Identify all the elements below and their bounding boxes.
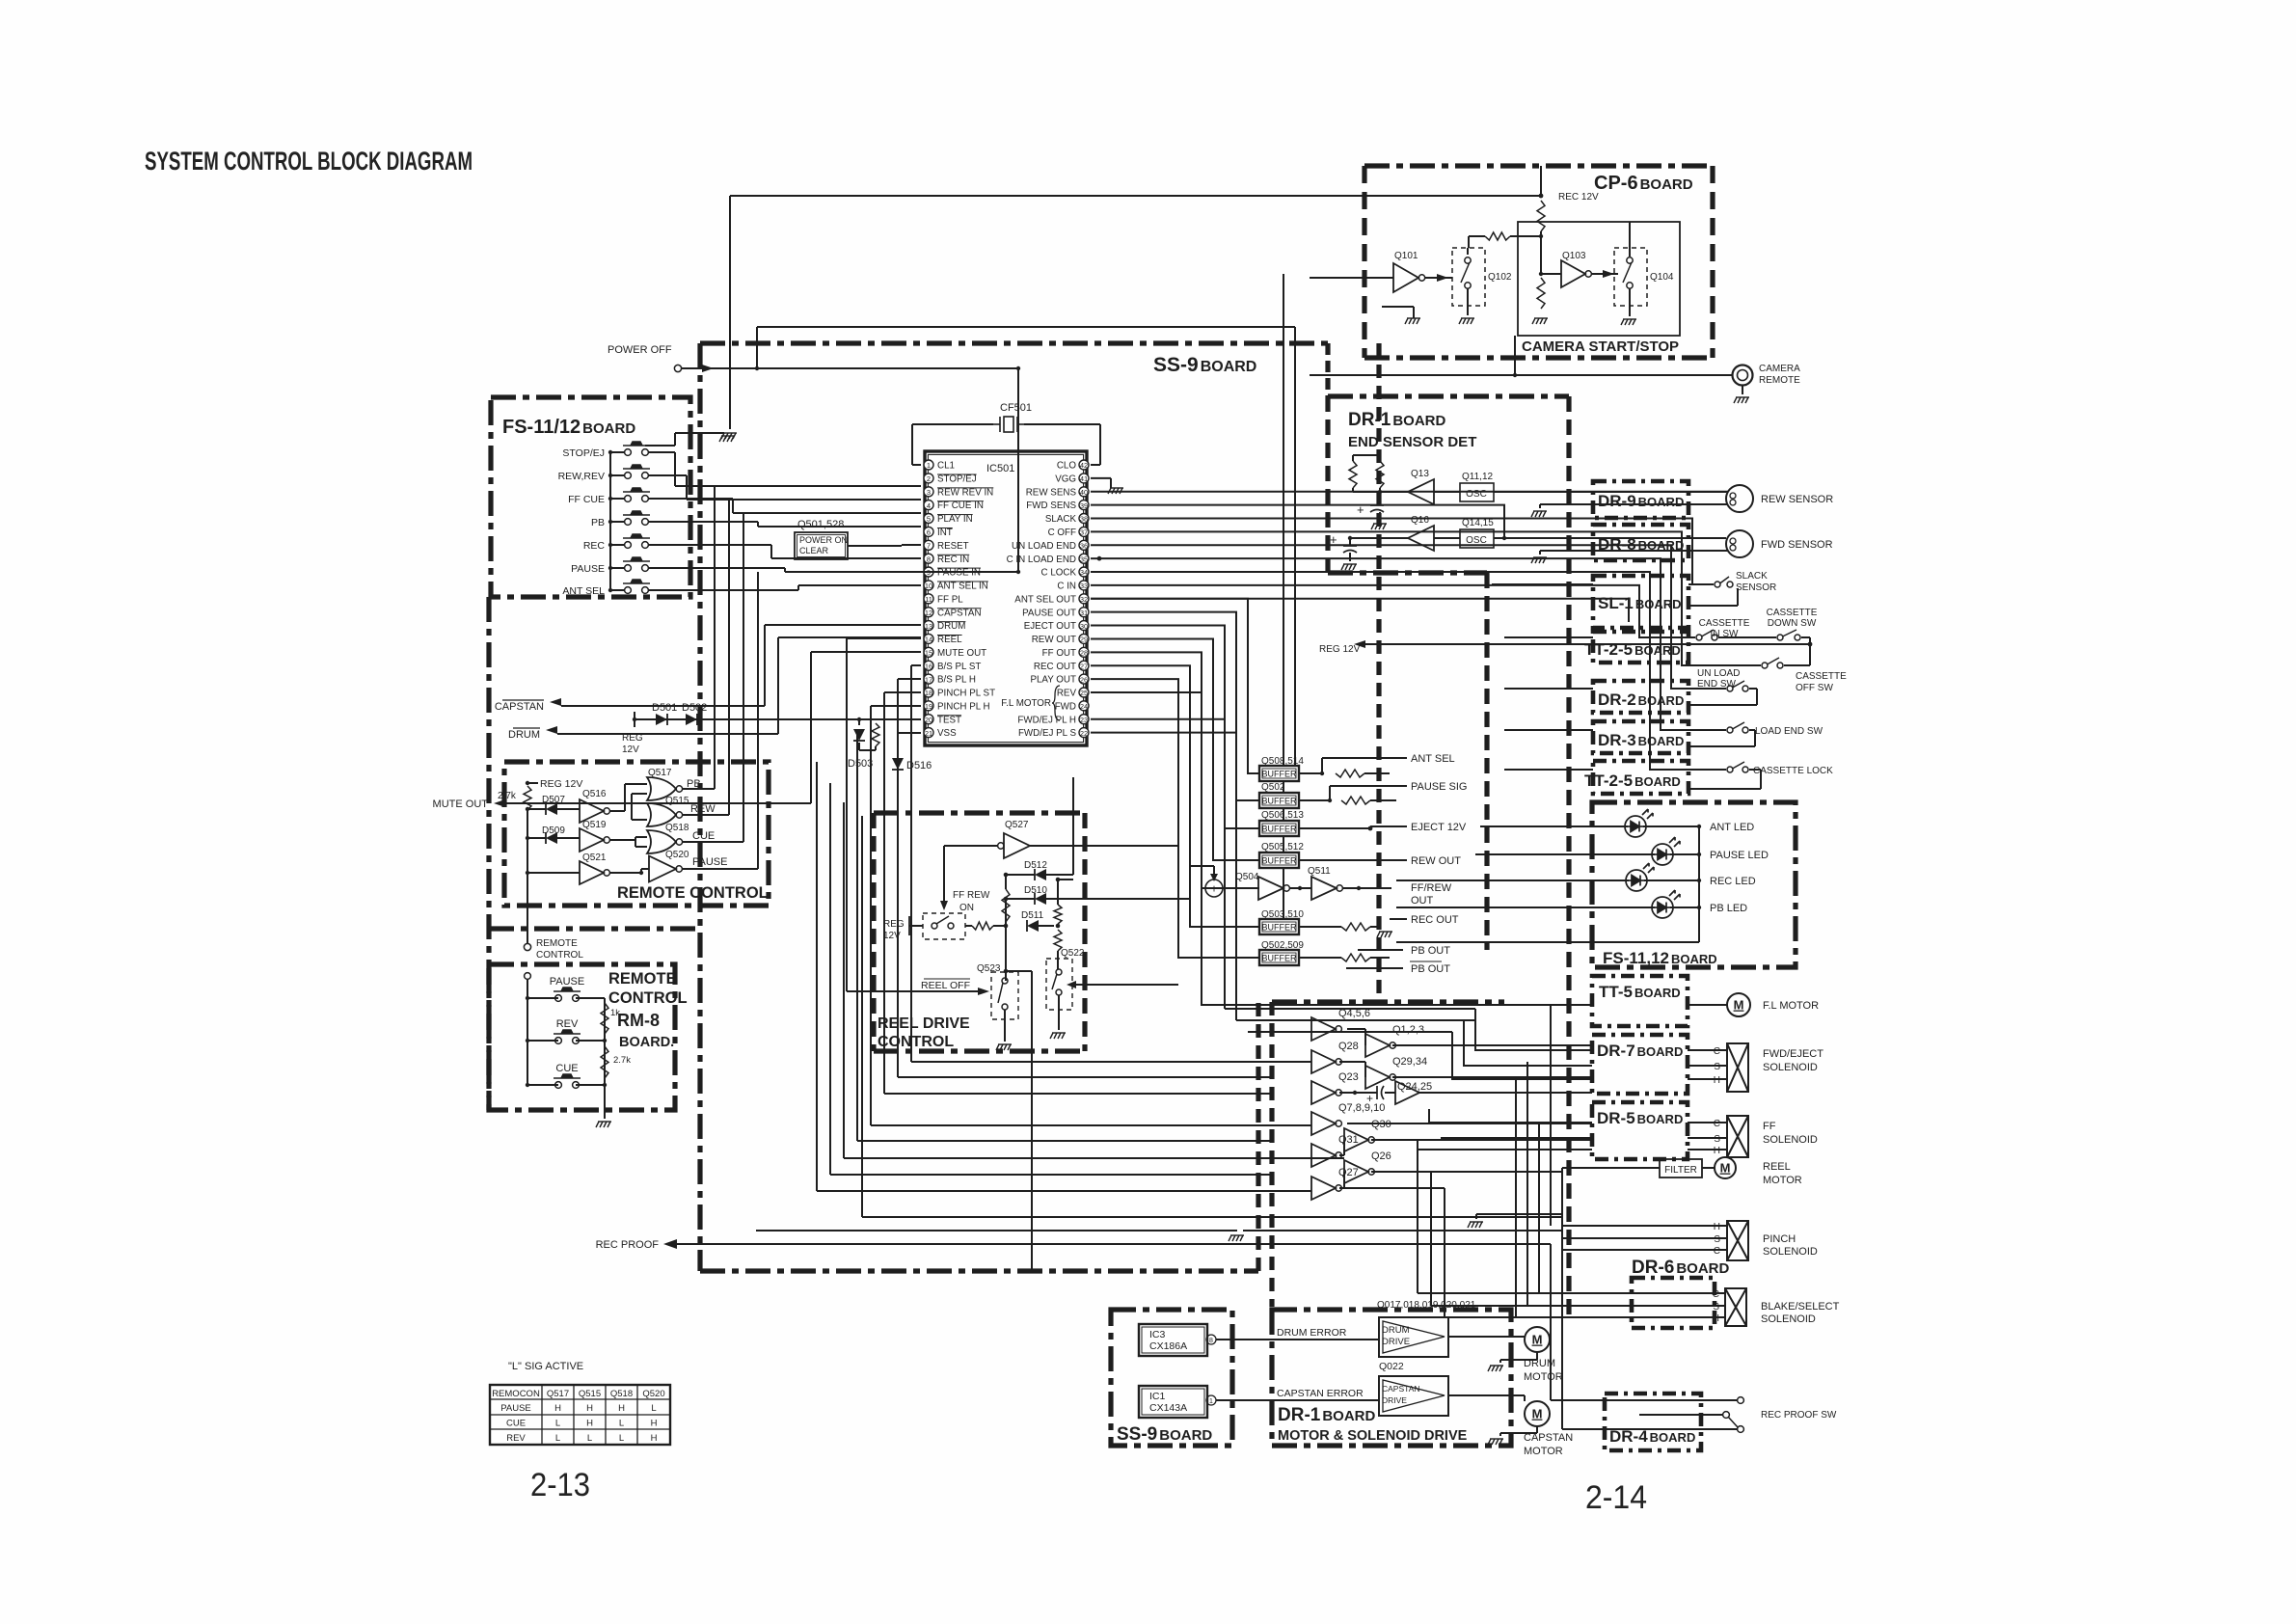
pushbutton ANT SEL [623, 580, 650, 593]
wire remote connector [527, 873, 528, 943]
wire blake riser H [1444, 1188, 1445, 1317]
svg-text:Q28: Q28 [1338, 1041, 1359, 1052]
photo sensor FWD [1726, 530, 1753, 557]
DR-8 board outline [1593, 525, 1688, 560]
wire [1688, 583, 1714, 585]
wire FF C [1429, 1122, 1592, 1123]
svg-text:Q13: Q13 [1411, 469, 1429, 479]
svg-text:PAUSE LED: PAUSE LED [1710, 850, 1769, 861]
svg-text:14: 14 [925, 636, 932, 644]
wire [1504, 664, 1593, 666]
svg-text:REC: REC [583, 540, 606, 552]
svg-text:Q022: Q022 [1379, 1361, 1404, 1372]
wire [1536, 1426, 1538, 1433]
LED PAUSE LED [1652, 837, 1680, 865]
svg-text:SYSTEM CONTROL BLOCK DIAGRAM: SYSTEM CONTROL BLOCK DIAGRAM [145, 147, 473, 176]
wire pin31 riser to buffer [1091, 612, 1259, 800]
SS-9 bottom border [700, 1268, 1258, 1273]
svg-text:PAUSE SIG: PAUSE SIG [1411, 781, 1467, 793]
inverter Q520 [649, 856, 676, 882]
svg-text:REW REV IN: REW REV IN [937, 487, 993, 498]
svg-text:PAUSE OUT: PAUSE OUT [1022, 608, 1076, 618]
junction [1016, 366, 1020, 370]
wire load end return [1754, 730, 1756, 746]
svg-text:Q103: Q103 [1562, 251, 1586, 261]
wire drum drive out [1448, 1336, 1525, 1338]
svg-text:ANT SEL: ANT SEL [562, 585, 605, 597]
svg-text:DRUM: DRUM [937, 621, 965, 632]
wire [1551, 1004, 1592, 1006]
wire button out [649, 498, 733, 500]
CAPSTAN DRIVE box [1379, 1376, 1448, 1416]
junction [526, 996, 529, 1000]
solenoid BLAKE/SELECT [1725, 1288, 1746, 1326]
junction [1378, 490, 1382, 494]
diode D516 [892, 758, 904, 770]
wire to PAUSE IN [921, 571, 1018, 573]
diode D511 [1027, 920, 1039, 932]
svg-text:REMOTE: REMOTE [536, 938, 578, 949]
svg-text:26: 26 [1080, 675, 1088, 684]
wire [1688, 769, 1726, 771]
wire FF H [1418, 1149, 1592, 1150]
svg-text:SOLENOID: SOLENOID [1763, 1246, 1818, 1258]
svg-text:H: H [651, 1419, 658, 1429]
wire bus 1235 [817, 1190, 1311, 1192]
wire [1539, 504, 1541, 508]
svg-text:REC IN: REC IN [937, 555, 969, 565]
driver Q23 [1311, 1081, 1336, 1104]
wire pin30 riser to buffer [1091, 626, 1259, 828]
wire to pin15 [811, 651, 921, 653]
wire FWD to FL motor [1091, 692, 1592, 1005]
terminal [948, 923, 954, 929]
svg-text:2.7k: 2.7k [498, 791, 517, 801]
svg-text:CAPSTAN: CAPSTAN [937, 608, 982, 618]
svg-text:REG: REG [622, 733, 643, 744]
svg-text:VSS: VSS [937, 728, 957, 739]
IC501 pin 17 [924, 674, 933, 684]
wire [1370, 957, 1390, 959]
wire [1347, 1028, 1365, 1030]
CP-6 bottom border [1364, 355, 1713, 360]
wire to fwd/eject C [1475, 1009, 1592, 1050]
svg-text:D502: D502 [682, 702, 707, 714]
DR-1 bottom board outline [1272, 1310, 1511, 1446]
wire [1370, 926, 1379, 928]
svg-text:IC501: IC501 [986, 463, 1014, 474]
wire [1469, 235, 1485, 237]
IC501 pin 36 [1079, 540, 1089, 550]
svg-text:REC PROOF: REC PROOF [596, 1239, 660, 1251]
wire to rec proof sw top [1551, 1399, 1737, 1401]
table column line [605, 1385, 607, 1445]
svg-text:1: 1 [1209, 1398, 1213, 1405]
wire [1379, 455, 1381, 461]
driver Q28 [1311, 1050, 1336, 1073]
wire [1364, 772, 1390, 774]
wire [1540, 231, 1542, 274]
wire [1369, 826, 1371, 828]
wire [1385, 1092, 1395, 1094]
terminal [1056, 969, 1062, 975]
wire [1524, 1337, 1526, 1340]
wire [609, 872, 641, 874]
ground driver area [1468, 1222, 1483, 1228]
wire camera remote [1310, 374, 1732, 376]
DRUM DRIVE box [1379, 1317, 1448, 1357]
junction [1004, 873, 1009, 878]
svg-text:DRIVE: DRIVE [1382, 1337, 1410, 1347]
wire [909, 925, 923, 927]
wire [1294, 327, 1296, 375]
wire right riser 3 [1538, 1123, 1540, 1293]
inverter Q527 body [1004, 833, 1030, 858]
svg-text:POWER OFF: POWER OFF [608, 344, 672, 356]
diode D507 [546, 803, 557, 815]
svg-text:DRUM: DRUM [508, 729, 540, 741]
terminal [1465, 257, 1471, 263]
POWER ON CLEAR block [795, 532, 848, 559]
diode D502 [686, 714, 697, 725]
diode D510 [1035, 893, 1046, 905]
wire led anode [1644, 880, 1699, 881]
svg-text:PAUSE: PAUSE [500, 1403, 531, 1414]
svg-text:C LOCK: C LOCK [1041, 568, 1077, 579]
svg-text:Q104: Q104 [1650, 272, 1674, 283]
wire [1004, 1010, 1006, 1042]
wire CP-6 feed 2 [1294, 375, 1296, 777]
svg-text:REC 12V: REC 12V [1558, 192, 1599, 203]
svg-text:Q14,15: Q14,15 [1462, 518, 1494, 528]
svg-text:FF PL: FF PL [937, 594, 963, 605]
IC501 pin 1 [924, 460, 933, 470]
svg-text:FF CUE IN: FF CUE IN [937, 501, 984, 511]
inverter Q101 [1393, 263, 1418, 292]
DR-1 top border [1328, 393, 1569, 398]
svg-text:CLO: CLO [1057, 461, 1077, 472]
junction [608, 588, 612, 592]
un load end switch [1727, 681, 1748, 691]
wire [1390, 859, 1407, 861]
svg-text:MOTOR: MOTOR [1763, 1175, 1802, 1186]
wire [635, 836, 647, 838]
svg-text:C: C [1714, 1246, 1720, 1257]
LED ANT LED [1625, 809, 1653, 837]
IC1 box [1139, 1386, 1207, 1418]
wire [1349, 553, 1351, 561]
svg-text:REW: REW [690, 803, 716, 815]
wire [1491, 581, 1493, 584]
svg-text:D503: D503 [848, 758, 873, 770]
wire bus 1046 [1225, 1008, 1475, 1010]
svg-text:OUT: OUT [1411, 895, 1434, 907]
wire S [1688, 1137, 1727, 1139]
wire [1091, 557, 1099, 559]
wire bus [527, 810, 528, 873]
svg-text:L: L [651, 1403, 656, 1414]
svg-text:REC PROOF SW: REC PROOF SW [1761, 1410, 1837, 1421]
ground camera remote [1734, 397, 1749, 403]
svg-text:ANT SEL: ANT SEL [1411, 753, 1455, 765]
svg-text:Q017,018,019,020,021: Q017,018,019,020,021 [1377, 1300, 1476, 1311]
wire [784, 568, 786, 572]
svg-text:Q516: Q516 [582, 789, 607, 799]
svg-text:PB OUT: PB OUT [1411, 963, 1450, 975]
pushbutton REC [623, 534, 650, 548]
wire [610, 451, 624, 453]
ground Q101 area [1405, 318, 1420, 324]
svg-text:ANT SEL OUT: ANT SEL OUT [1014, 594, 1076, 605]
wire [640, 810, 642, 811]
svg-text:PINCH PL H: PINCH PL H [937, 701, 990, 712]
svg-text:Q16: Q16 [1411, 515, 1429, 526]
wire to IC pin [687, 499, 921, 501]
wire Q104 top [1629, 222, 1631, 257]
solenoid FWD/EJECT [1727, 1043, 1748, 1092]
switch Q523 box [991, 972, 1018, 1019]
wire to fwd/eject H [1452, 1032, 1592, 1079]
wire REC LED [1396, 880, 1629, 881]
wire fwdej s riser [1091, 733, 1236, 1020]
wire CUE riser [743, 513, 744, 842]
junction [1357, 886, 1361, 890]
wire [557, 808, 580, 810]
svg-text:2-14: 2-14 [1585, 1479, 1647, 1516]
wire SLACK [1091, 519, 1714, 584]
ground sensor return b [1531, 557, 1547, 563]
resistor rec out [1341, 923, 1370, 931]
wire [1058, 995, 1060, 1030]
wire blake riser C [1417, 1140, 1418, 1293]
wire inner box to remote line [1514, 336, 1516, 375]
wire riser c [883, 692, 885, 1094]
svg-text:H: H [1714, 1146, 1720, 1156]
terminal [1002, 1004, 1008, 1010]
wire [1504, 704, 1593, 706]
wire PB OUT 2 [1346, 967, 1403, 969]
solenoid PINCH [1727, 1221, 1748, 1260]
wire power riser [756, 327, 758, 368]
wire RM-8 right bus [604, 998, 606, 1085]
wire [610, 589, 624, 591]
wire to IC pin [758, 526, 921, 528]
wire PAUSE [682, 868, 758, 870]
IC501 pin 23 [1079, 715, 1089, 724]
wire [1299, 799, 1330, 801]
resistor CP-6 R2 [1485, 232, 1510, 240]
junction [526, 781, 529, 785]
wire UN LOAD END [1091, 545, 1688, 689]
NOR gate Q518 [647, 830, 676, 853]
resistor DR-1 Ra [1349, 461, 1357, 488]
wire Q7 out [1347, 1123, 1592, 1124]
wire [1247, 777, 1249, 1032]
svg-text:CX186A: CX186A [1149, 1340, 1187, 1352]
junction [1328, 798, 1332, 802]
wire into DR-2 [1504, 688, 1593, 690]
wire [1370, 826, 1390, 827]
svg-text:39: 39 [1080, 501, 1088, 510]
wire riser DR-4 b [1561, 1231, 1563, 1429]
wire to pin21 vss [898, 732, 921, 734]
wire [1299, 859, 1390, 861]
IC501 pin 21 [924, 728, 933, 738]
wire PB riser [714, 486, 716, 789]
svg-text:PLAY OUT: PLAY OUT [1030, 675, 1076, 686]
overline REEL OFF [924, 978, 970, 980]
svg-text:25: 25 [1080, 689, 1088, 697]
amp Q13 [1408, 479, 1434, 504]
wire CP-6 feed down [1283, 274, 1284, 928]
wire [770, 545, 772, 558]
switch FF REW ON box [923, 913, 965, 939]
svg-text:Q520: Q520 [665, 850, 689, 860]
table row line [490, 1414, 670, 1416]
svg-text:C OFF: C OFF [1048, 528, 1076, 538]
ground Q102 [1459, 318, 1474, 324]
wire [1510, 235, 1541, 237]
wire PB [682, 788, 715, 790]
REMOTE CONTROL board outline [504, 762, 769, 906]
svg-text:SOLENOID: SOLENOID [1763, 1062, 1818, 1073]
wire [1475, 1214, 1477, 1219]
svg-text:6: 6 [927, 528, 931, 537]
table column line [636, 1385, 638, 1445]
junction [1004, 969, 1009, 974]
wire [1339, 1154, 1344, 1156]
switch Q104 box [1614, 248, 1647, 306]
svg-text:SLACK: SLACK [1736, 571, 1768, 582]
resistor reel in [972, 922, 993, 930]
DR-6 board outline [1632, 1278, 1715, 1328]
wire DRUM [557, 733, 778, 735]
wire [1536, 1352, 1538, 1360]
wire riser d [870, 706, 872, 1125]
wire [1389, 758, 1391, 773]
svg-text:8: 8 [1209, 1338, 1213, 1344]
table column line [541, 1385, 543, 1445]
wire [1223, 887, 1258, 889]
ground RM-8 [596, 1122, 611, 1127]
wire Q101 in [1310, 277, 1393, 279]
IC501 pin 24 [1079, 701, 1089, 711]
svg-text:12: 12 [925, 609, 932, 617]
wire to IC pin [798, 584, 921, 586]
svg-text:S: S [1714, 1134, 1720, 1145]
IC501 pin 15 [924, 647, 933, 657]
svg-text:REW SENS: REW SENS [1026, 487, 1077, 498]
svg-text:PINCH PL ST: PINCH PL ST [937, 689, 995, 699]
wire pin32 riser to buffer [1091, 599, 1259, 773]
svg-text:FF/REW: FF/REW [1411, 882, 1452, 894]
IC501 pin 20 [924, 715, 933, 724]
wire to REW sensor [1494, 491, 1726, 493]
svg-text:END SENSOR DET: END SENSOR DET [1348, 434, 1476, 450]
wire to IC pin [785, 571, 921, 573]
svg-text:DRUM: DRUM [1382, 1325, 1410, 1336]
svg-text:34: 34 [1080, 568, 1088, 577]
junction [1368, 826, 1373, 831]
DR-5 board outline [1592, 1102, 1688, 1159]
svg-text:OFF SW: OFF SW [1796, 683, 1833, 693]
wire drum error [1216, 1339, 1379, 1340]
IC501 pin 9 [924, 567, 933, 577]
wire [635, 837, 636, 847]
svg-text:REEL: REEL [937, 635, 962, 645]
wire blake riser S [1430, 1172, 1432, 1306]
resistor reel right bottom [1054, 930, 1062, 951]
wire ANT SEL OUT [1091, 599, 1629, 622]
driver Q26 [1344, 1160, 1368, 1183]
svg-text:S: S [1713, 1302, 1719, 1313]
svg-text:24: 24 [1080, 702, 1088, 711]
terminal [1056, 989, 1062, 995]
svg-text:DR-1BOARD: DR-1BOARD [1278, 1405, 1376, 1425]
wire fwdej h riser [1091, 719, 1225, 1009]
svg-text:CASSETTE LOCK: CASSETTE LOCK [1753, 766, 1833, 776]
wire PAUSE LED [1475, 853, 1655, 855]
svg-text:FWD SENS: FWD SENS [1026, 501, 1076, 511]
svg-text:1: 1 [927, 461, 931, 470]
IC501 pin 7 [924, 540, 933, 550]
wire H [1688, 1149, 1727, 1150]
wire reg12v tick [634, 712, 635, 727]
wire [1629, 288, 1631, 316]
IC3 inner [1142, 1327, 1204, 1353]
svg-text:PAUSE: PAUSE [550, 976, 584, 988]
svg-text:Q1,2,3: Q1,2,3 [1392, 1024, 1424, 1036]
DR-9 board outline [1593, 481, 1688, 518]
wire riser e [856, 732, 858, 1141]
camera remote connector [1733, 365, 1753, 386]
resistor 2.7k remote [524, 786, 531, 810]
driver Q24,25 [1395, 1081, 1419, 1104]
svg-text:Q511: Q511 [1308, 866, 1331, 877]
svg-text:CP-6BOARD: CP-6BOARD [1594, 173, 1693, 194]
wire [527, 997, 558, 999]
svg-text:CONTROL: CONTROL [536, 950, 583, 961]
junction [1808, 642, 1813, 647]
wire riser b [897, 679, 899, 1077]
SL-1 board outline [1593, 576, 1688, 628]
solenoid FF [1727, 1116, 1748, 1157]
svg-text:F.L MOTOR: F.L MOTOR [1763, 1000, 1819, 1012]
wire q522 feed [1076, 984, 1178, 986]
svg-text:SOLENOID: SOLENOID [1761, 1313, 1816, 1325]
wire down to Q523 [1005, 899, 1007, 981]
wire REW sensor return [1540, 503, 1728, 505]
IC501 pin 37 [1079, 527, 1089, 536]
wire into DR-3 [1504, 729, 1593, 731]
driver Q29,34 [1365, 1066, 1390, 1089]
junction [1004, 924, 1009, 929]
svg-text:INT: INT [937, 528, 953, 538]
svg-text:ANT SEL IN: ANT SEL IN [937, 582, 988, 592]
wire [527, 1084, 558, 1086]
terminal [932, 923, 937, 929]
svg-text:REC OUT: REC OUT [1034, 662, 1076, 672]
wire reel drop to bottom [1031, 971, 1033, 1269]
capacitor DR-1 Cb [1343, 546, 1357, 553]
svg-text:Q27: Q27 [1338, 1167, 1359, 1178]
svg-text:S: S [1714, 1062, 1720, 1072]
wire [1006, 970, 1032, 972]
inverter Q504 [1258, 877, 1283, 900]
switch lever Q104 [1623, 262, 1632, 283]
wire sum top feed [1190, 865, 1214, 867]
IC501 pin 41 [1079, 474, 1089, 483]
